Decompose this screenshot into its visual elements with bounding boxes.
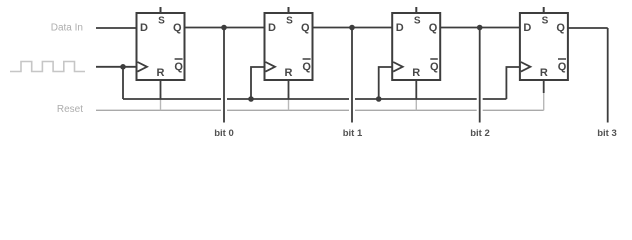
svg-text:Data In: Data In <box>51 23 83 34</box>
svg-text:D: D <box>268 22 276 34</box>
svg-text:bit 3: bit 3 <box>597 128 617 139</box>
svg-text:Q: Q <box>556 22 565 34</box>
svg-text:S: S <box>158 16 165 27</box>
svg-text:D: D <box>523 22 531 34</box>
svg-text:Q: Q <box>429 22 438 34</box>
svg-text:Q: Q <box>302 61 311 73</box>
svg-text:S: S <box>542 16 549 27</box>
svg-text:D: D <box>396 22 404 34</box>
svg-text:Q: Q <box>430 61 439 73</box>
svg-text:Q: Q <box>173 22 182 34</box>
svg-text:Reset: Reset <box>57 104 83 115</box>
svg-text:R: R <box>540 67 548 79</box>
svg-text:bit 2: bit 2 <box>470 128 490 139</box>
svg-text:Q: Q <box>558 61 567 73</box>
svg-text:bit 0: bit 0 <box>214 128 234 139</box>
svg-text:Q: Q <box>301 22 310 34</box>
svg-text:R: R <box>285 67 293 79</box>
svg-text:D: D <box>140 22 148 34</box>
svg-text:Q: Q <box>174 61 183 73</box>
svg-text:S: S <box>414 16 421 27</box>
svg-text:R: R <box>157 67 165 79</box>
svg-text:bit 1: bit 1 <box>343 128 363 139</box>
svg-text:S: S <box>286 16 293 27</box>
svg-text:R: R <box>412 67 420 79</box>
